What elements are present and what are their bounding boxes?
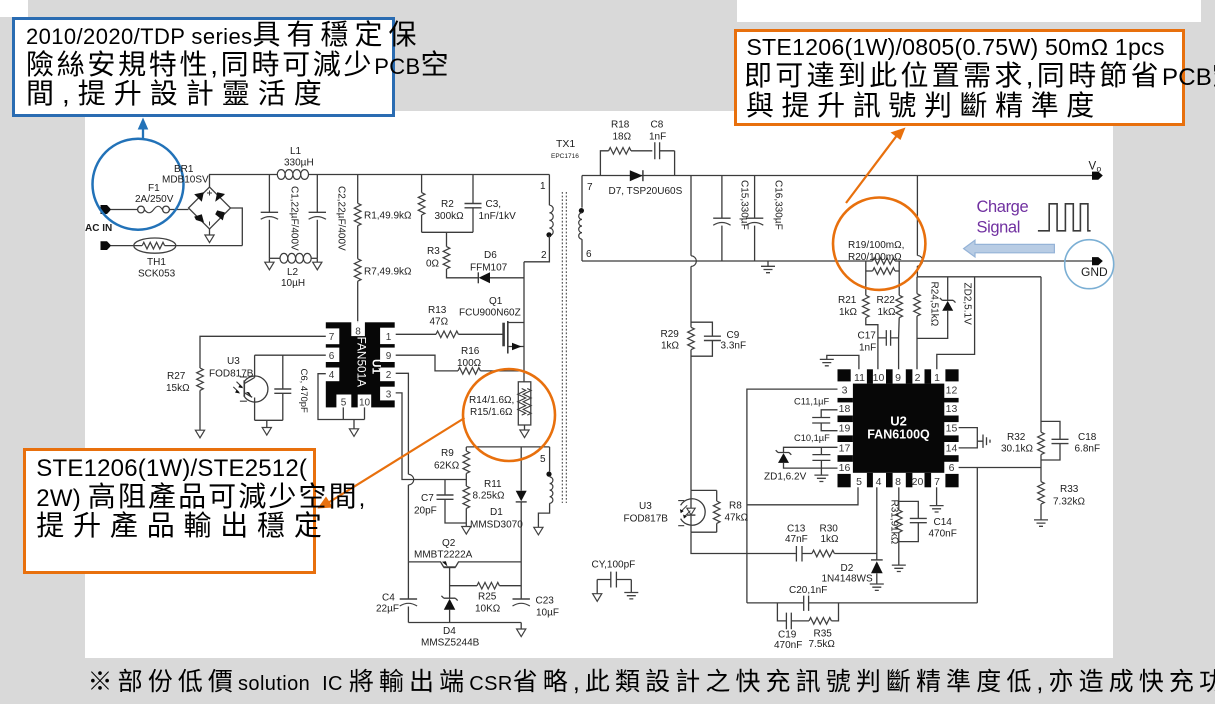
transistor Q1	[504, 321, 524, 354]
svg-text:6: 6	[329, 351, 335, 362]
svg-text:12: 12	[946, 385, 958, 397]
wire pin8	[357, 321, 359, 323]
svg-text:C13: C13	[787, 524, 806, 535]
svg-text:R7,49.9kΩ: R7,49.9kΩ	[364, 267, 412, 278]
capacitor C19	[777, 603, 809, 629]
svg-text:C11,1µF: C11,1µF	[794, 397, 829, 407]
svg-text:7.32kΩ: 7.32kΩ	[1053, 497, 1085, 508]
resistor R32	[1038, 432, 1045, 482]
wire pin7	[936, 487, 938, 505]
svg-text:FFM107: FFM107	[470, 263, 508, 274]
svg-text:10KΩ: 10KΩ	[475, 604, 501, 615]
svg-text:5: 5	[341, 398, 347, 409]
ground	[205, 235, 214, 243]
svg-text:30.1kΩ: 30.1kΩ	[1001, 444, 1033, 455]
optocoupler U3 FOD817B (primary side)	[233, 355, 268, 420]
svg-text:FAN6100Q: FAN6100Q	[867, 428, 930, 442]
svg-text:ZD2,5.1V: ZD2,5.1V	[962, 283, 973, 326]
svg-text:U1: U1	[370, 359, 384, 375]
wire	[111, 245, 142, 247]
wire pin6	[959, 467, 1041, 469]
svg-text:MMSD3070: MMSD3070	[470, 520, 523, 531]
capacitor C1	[261, 175, 278, 259]
svg-text:22µF: 22µF	[376, 604, 399, 615]
svg-text:1kΩ: 1kΩ	[839, 307, 858, 318]
svg-text:R2: R2	[441, 199, 454, 210]
bridge rectifier BR1	[189, 187, 231, 229]
wire R29 riser	[690, 176, 692, 328]
svg-text:5: 5	[540, 454, 546, 465]
svg-text:2A/250V: 2A/250V	[135, 194, 174, 205]
svg-text:3: 3	[842, 385, 848, 397]
svg-text:L2: L2	[287, 267, 299, 278]
svg-text:20: 20	[912, 476, 924, 488]
svg-text:15: 15	[946, 423, 958, 435]
wire	[165, 245, 243, 247]
svg-text:7.5kΩ: 7.5kΩ	[809, 639, 836, 650]
svg-text:300kΩ: 300kΩ	[435, 211, 465, 222]
svg-text:47kΩ: 47kΩ	[725, 513, 749, 524]
wire secondary top rail	[582, 175, 1092, 177]
resistor R25	[450, 582, 522, 589]
schematic white sheet	[85, 111, 1114, 658]
svg-text:19: 19	[839, 423, 851, 435]
svg-text:R30: R30	[820, 524, 839, 535]
svg-text:1kΩ: 1kΩ	[821, 534, 840, 545]
white band top-right	[737, 0, 1201, 22]
svg-text:47nF: 47nF	[785, 534, 808, 545]
svg-text:10µH: 10µH	[281, 278, 305, 289]
inductor L1	[277, 170, 308, 180]
svg-text:C2,22µF/400V: C2,22µF/400V	[336, 186, 347, 251]
ground sideways	[983, 435, 990, 448]
svg-text:FCU900N60Z: FCU900N60Z	[459, 308, 521, 319]
capacitor CY	[597, 572, 631, 594]
svg-text:10µF: 10µF	[536, 608, 559, 619]
resistor R24	[914, 277, 921, 370]
resistor R18 snubber	[600, 148, 652, 176]
svg-text:8: 8	[895, 476, 901, 488]
svg-text:D6: D6	[484, 250, 497, 261]
svg-text:C3,: C3,	[486, 199, 502, 210]
ground	[814, 475, 828, 481]
svg-text:Charge: Charge	[977, 198, 1029, 216]
svg-text:16: 16	[839, 462, 851, 474]
resistor R3	[443, 247, 478, 278]
circle highlight fuse	[93, 139, 184, 230]
capacitor C7	[437, 480, 467, 527]
svg-text:R32: R32	[1007, 432, 1026, 443]
capacitor C2	[309, 175, 326, 259]
svg-text:R22: R22	[877, 295, 896, 306]
wire	[209, 229, 211, 235]
svg-text:2: 2	[386, 370, 392, 381]
wire pin3 riser with hop	[396, 393, 467, 480]
svg-text:R13: R13	[428, 305, 447, 316]
capacitor C15	[713, 176, 730, 262]
svg-text:R24,51kΩ: R24,51kΩ	[929, 282, 940, 327]
ground	[520, 430, 529, 438]
wire pin1 to R13	[396, 333, 436, 335]
wire	[210, 175, 278, 188]
svg-text:13: 13	[946, 403, 958, 415]
ground	[462, 527, 471, 535]
svg-text:C17: C17	[858, 331, 877, 342]
wire pin15 pin14	[959, 428, 983, 448]
resistor R8	[713, 490, 720, 532]
arrow leader to box1	[138, 118, 149, 139]
circle highlight R14 R15	[463, 369, 555, 461]
svg-text:R21: R21	[838, 295, 857, 306]
resistor R1	[354, 175, 361, 226]
resistor R14 R15 sense pair	[518, 382, 532, 430]
node AC IN terminal R	[101, 241, 112, 250]
circle highlight GND	[1065, 240, 1114, 289]
svg-text:R19/100mΩ,: R19/100mΩ,	[848, 240, 904, 251]
ground	[593, 594, 602, 602]
wire	[169, 209, 188, 211]
arrow leader to box3	[318, 418, 465, 509]
svg-text:7: 7	[587, 182, 593, 193]
node GND terminal	[1092, 257, 1103, 265]
wire Q1 drain riser	[523, 262, 525, 382]
wire	[309, 174, 550, 176]
wire	[231, 208, 243, 246]
wire pin9 to R16	[396, 355, 458, 371]
svg-text:C1,22µF/400V: C1,22µF/400V	[289, 186, 300, 251]
node AC IN terminal L	[101, 205, 112, 214]
resistor R19 R20 sense pair	[866, 258, 899, 275]
footnote text	[88, 668, 1215, 700]
wire pin1 riser	[937, 277, 975, 370]
wire feedback loop	[747, 468, 977, 603]
zener ZD1	[776, 450, 838, 468]
svg-text:C10,1µF: C10,1µF	[794, 433, 830, 443]
svg-text:C6, 470pF: C6, 470pF	[298, 369, 309, 414]
svg-text:2: 2	[541, 250, 547, 261]
ground	[313, 258, 322, 270]
capacitor C9	[691, 322, 721, 356]
wire pin17	[784, 447, 838, 452]
svg-text:R11: R11	[484, 479, 502, 490]
svg-text:FOD817B: FOD817B	[624, 514, 669, 525]
wire	[111, 209, 138, 211]
svg-text:14: 14	[946, 443, 958, 455]
svg-text:3.3nF: 3.3nF	[721, 341, 747, 352]
svg-text:C15,330µF: C15,330µF	[739, 180, 750, 230]
wire pin2 riser	[396, 373, 409, 562]
svg-text:9: 9	[386, 351, 392, 362]
svg-text:R35: R35	[814, 629, 833, 640]
svg-text:470nF: 470nF	[929, 529, 957, 540]
wire bottom	[408, 622, 521, 624]
svg-text:C19: C19	[778, 630, 797, 641]
svg-text:BR1: BR1	[174, 164, 194, 175]
wire pin7	[200, 336, 326, 368]
arrow leader to box2	[846, 128, 906, 204]
svg-text:C18: C18	[1078, 432, 1097, 443]
svg-text:R14/1.6Ω,: R14/1.6Ω,	[469, 395, 514, 406]
svg-text:C20,1nF: C20,1nF	[789, 585, 827, 596]
wire hop	[917, 256, 922, 267]
resistor R27	[197, 368, 204, 430]
resistor R11	[463, 486, 470, 523]
svg-text:20pF: 20pF	[414, 506, 437, 517]
resistor R7	[354, 226, 361, 323]
ground	[820, 359, 834, 365]
callout box 3 (orange)	[23, 448, 316, 574]
svg-text:C14: C14	[934, 517, 953, 528]
ground	[534, 527, 543, 535]
svg-text:47Ω: 47Ω	[430, 317, 449, 328]
wire Vo drop with hop	[916, 176, 918, 277]
svg-text:MMBT2222A: MMBT2222A	[414, 550, 473, 561]
svg-text:TH1: TH1	[147, 257, 166, 268]
svg-text:R8: R8	[729, 501, 742, 512]
svg-text:R31,91kΩ: R31,91kΩ	[889, 500, 900, 545]
svg-text:CY,100pF: CY,100pF	[592, 560, 636, 571]
wire hop	[691, 256, 696, 267]
svg-text:17: 17	[839, 443, 851, 455]
label Charge Signal	[977, 198, 1029, 237]
wire	[422, 232, 473, 246]
capacitor C6	[274, 355, 291, 420]
ground	[930, 506, 944, 512]
resistor R22	[896, 271, 903, 369]
svg-text:6: 6	[586, 249, 592, 260]
capacitor C13	[796, 546, 812, 562]
ground	[1034, 520, 1048, 526]
svg-text:C4: C4	[382, 593, 395, 604]
svg-text:18: 18	[839, 403, 851, 415]
svg-text:3: 3	[386, 390, 392, 401]
svg-text:C16,330µF: C16,330µF	[773, 180, 784, 230]
svg-text:1nF/1kV: 1nF/1kV	[479, 211, 517, 222]
svg-text:R16: R16	[461, 346, 480, 357]
svg-text:V: V	[1089, 161, 1097, 173]
svg-text:GND: GND	[1081, 265, 1108, 279]
resistor R9	[463, 447, 470, 486]
svg-text:11: 11	[854, 372, 865, 384]
wire pin4	[876, 487, 878, 560]
svg-text:D2: D2	[841, 563, 854, 574]
charge signal pulses	[1038, 204, 1091, 231]
svg-text:18Ω: 18Ω	[613, 132, 632, 143]
svg-text:Q1: Q1	[489, 296, 503, 307]
svg-text:0Ω: 0Ω	[426, 259, 440, 270]
ground	[349, 429, 358, 437]
transformer TX1 primary	[524, 175, 553, 262]
svg-text:C8: C8	[651, 120, 664, 131]
svg-text:F1: F1	[148, 183, 160, 194]
svg-text:4: 4	[876, 476, 882, 488]
diode D1	[516, 447, 527, 599]
wire GND rail	[582, 260, 866, 262]
svg-text:15kΩ: 15kΩ	[166, 383, 190, 394]
zener ZD2	[917, 277, 956, 339]
wire pin11	[827, 355, 859, 369]
svg-text:C23: C23	[536, 596, 555, 607]
svg-text:L1: L1	[290, 146, 302, 157]
capacitor C18	[1041, 421, 1069, 460]
svg-text:TX1: TX1	[556, 138, 575, 150]
svg-text:MDB10SV: MDB10SV	[162, 175, 209, 186]
op-amp U1 FAN501A body	[326, 322, 395, 407]
node Vo terminal	[1092, 172, 1103, 180]
svg-text:1: 1	[386, 332, 392, 343]
capacitor C8	[655, 142, 675, 175]
svg-text:R3: R3	[427, 246, 440, 257]
svg-text:C9: C9	[727, 330, 740, 341]
svg-text:D1: D1	[490, 507, 503, 518]
svg-text:1nF: 1nF	[859, 343, 876, 354]
ground	[195, 430, 204, 438]
zener D4	[441, 596, 457, 623]
svg-text:D7, TSP20U60S: D7, TSP20U60S	[609, 186, 683, 197]
svg-text:62KΩ: 62KΩ	[434, 461, 460, 472]
svg-text:10: 10	[359, 398, 371, 409]
transistor Q2	[408, 561, 521, 599]
ground	[892, 565, 906, 571]
resistor R35	[809, 603, 839, 624]
svg-text:1: 1	[934, 372, 940, 384]
svg-text:470nF: 470nF	[774, 640, 802, 651]
svg-text:1kΩ: 1kΩ	[661, 341, 680, 352]
ground	[265, 258, 274, 270]
ground	[624, 593, 638, 599]
wire pin3 net	[747, 389, 838, 603]
charge signal block arrow	[964, 240, 1055, 257]
svg-text:6.8nF: 6.8nF	[1075, 444, 1101, 455]
svg-text:EPC1716: EPC1716	[551, 153, 579, 160]
capacitor C23	[513, 599, 530, 629]
svg-text:o: o	[1097, 164, 1102, 174]
wire GND rail right	[899, 260, 1092, 262]
IC U2 FAN6100Q body	[838, 369, 959, 487]
svg-text:R9: R9	[441, 448, 454, 459]
svg-text:FAN501A: FAN501A	[355, 337, 369, 388]
svg-text:U3: U3	[639, 501, 652, 512]
resistor R13	[436, 331, 503, 338]
capacitor C16	[746, 176, 763, 262]
wire aux top	[466, 446, 549, 448]
transformer TX1 secondary	[579, 176, 584, 262]
wire pin6	[255, 354, 326, 356]
capacitor C20	[804, 596, 809, 611]
svg-text:R20/100mΩ: R20/100mΩ	[848, 252, 902, 263]
svg-text:R15/1.6Ω: R15/1.6Ω	[470, 407, 513, 418]
svg-text:ZD1,6.2V: ZD1,6.2V	[764, 472, 807, 483]
resistor R16	[458, 368, 524, 375]
svg-text:10: 10	[873, 372, 885, 384]
thermistor TH1	[134, 238, 176, 253]
inductor L2	[269, 253, 317, 263]
svg-text:R27: R27	[167, 371, 186, 382]
svg-text:Signal: Signal	[977, 219, 1020, 237]
svg-text:1kΩ: 1kΩ	[878, 307, 897, 318]
svg-text:1N4148WS: 1N4148WS	[822, 574, 873, 585]
diode D7	[630, 170, 643, 181]
svg-text:7: 7	[329, 332, 335, 343]
resistor R30	[812, 550, 877, 557]
wire R32 riser	[1040, 277, 1042, 432]
resistor R33	[1038, 482, 1045, 520]
wire to C13	[691, 532, 796, 553]
svg-text:2: 2	[915, 372, 921, 384]
ground	[517, 629, 526, 637]
svg-text:U2: U2	[890, 414, 907, 429]
resistor R31	[896, 487, 903, 565]
svg-text:R33: R33	[1060, 484, 1079, 495]
optocoupler U3 FOD817B (secondary side)	[678, 490, 717, 532]
svg-text:MMSZ5244B: MMSZ5244B	[421, 638, 480, 649]
svg-text:U3: U3	[227, 356, 240, 367]
svg-text:AC IN: AC IN	[85, 223, 112, 234]
callout box 1 (blue)	[12, 17, 395, 117]
svg-text:R18: R18	[611, 120, 630, 131]
ground	[262, 428, 271, 436]
transformer TX1 aux winding	[538, 447, 552, 527]
transformer core	[562, 192, 566, 503]
svg-text:7: 7	[934, 476, 940, 488]
wire pin4 loop	[318, 374, 365, 429]
diode D6	[478, 272, 524, 283]
svg-text:4: 4	[329, 370, 335, 381]
fuse F1	[138, 206, 170, 213]
resistor R2	[418, 175, 425, 233]
svg-text:330µH: 330µH	[284, 158, 314, 169]
svg-text:R29: R29	[661, 329, 680, 340]
svg-text:D4: D4	[443, 626, 456, 637]
capacitor C17	[878, 330, 899, 346]
wire bus to R32	[917, 276, 1041, 278]
resistor R29	[688, 327, 695, 490]
svg-text:5: 5	[856, 476, 862, 488]
ground	[761, 261, 775, 273]
svg-text:FOD817B: FOD817B	[209, 369, 254, 380]
diode D2	[871, 560, 883, 584]
svg-text:SCK053: SCK053	[138, 269, 176, 280]
svg-text:6: 6	[949, 462, 955, 474]
svg-text:R1,49.9kΩ: R1,49.9kΩ	[364, 211, 412, 222]
capacitor C11	[812, 410, 837, 431]
wire pin5	[747, 487, 858, 505]
svg-text:100Ω: 100Ω	[457, 358, 482, 369]
ground	[870, 584, 884, 590]
svg-text:R25: R25	[478, 592, 497, 603]
capacitor C14	[899, 501, 927, 541]
white corner patch top-left	[0, 0, 28, 17]
capacitor C4	[400, 562, 417, 623]
svg-text:8.25kΩ: 8.25kΩ	[473, 491, 505, 502]
svg-text:1: 1	[540, 181, 546, 192]
wire	[255, 420, 283, 427]
resistor R21	[863, 271, 878, 369]
svg-text:1nF: 1nF	[649, 132, 666, 143]
svg-text:9: 9	[895, 372, 901, 384]
svg-text:Q2: Q2	[442, 538, 456, 549]
svg-text:C7: C7	[421, 493, 434, 504]
callout box 2 (orange)	[734, 29, 1185, 126]
capacitor C10	[812, 447, 830, 475]
capacitor C3	[465, 175, 482, 233]
circle highlight CSR	[833, 198, 925, 290]
